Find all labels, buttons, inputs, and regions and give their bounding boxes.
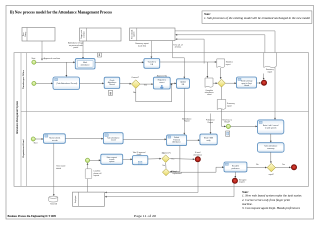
end event 2 [261, 80, 266, 85]
title [10, 10, 112, 15]
svg-text:records: records [52, 139, 58, 142]
start event 4 [85, 158, 89, 162]
badge 4 [97, 53, 101, 57]
flow: gateway approve down to gateway3 [165, 163, 167, 169]
svg-text:Business Process Re-Engineerin: Business Process Re-Engineering ICT 2009 [8, 214, 57, 218]
taskB: review attendance records [44, 134, 66, 144]
flow: taskB to taskC [65, 138, 103, 140]
start event 1 [32, 57, 36, 64]
flow: taskI down to gateway equal [270, 152, 272, 163]
task4: approved by (user task) [153, 75, 170, 89]
svg-text:8: 8 [110, 91, 112, 95]
svg-text:details: details [56, 167, 61, 170]
end event 4 [291, 165, 296, 170]
svg-text:Employee: Employee [75, 196, 77, 204]
task6: send summary report [237, 77, 257, 88]
taskD: submit preferred attendance [167, 135, 187, 146]
taskF: enter request to web system [101, 154, 123, 164]
flow: taskG to gateway approve [148, 158, 162, 160]
taskC: take attendance record [103, 133, 123, 144]
footer left: business process re-engineering [8, 214, 57, 218]
svg-text:Start: Start [34, 142, 38, 145]
message flow: doc1 area up to P3 [175, 38, 204, 63]
svg-text:Timekeeper Office: Timekeeper Office [23, 69, 25, 89]
flow: task6 to end2 [257, 82, 262, 84]
flow: gateway no loop back into task4 right [136, 83, 172, 101]
message flow: from bottom pool up through phone shape to start4 [87, 163, 89, 192]
footer center: page number [134, 214, 157, 218]
flow: gateway M to task6 [225, 82, 236, 84]
document doc2: summary report mid [217, 100, 235, 110]
svg-text:record: record [111, 139, 116, 142]
flow: gateway3 right to taskH [170, 166, 224, 172]
svg-text:Time DB: Time DB [50, 203, 58, 205]
taskI: take attendance summary [258, 143, 285, 153]
data store cylinder: time DB [49, 196, 58, 205]
flow: statistics doc down to gateway M [220, 68, 222, 79]
svg-text:Start: Start [32, 57, 36, 60]
flow: task2 to task3 [80, 83, 105, 85]
flow: start4 to taskF [90, 159, 101, 161]
message flow: into taskE top with label preference report [206, 114, 215, 135]
taskA: enter/edit/cancel to web system [258, 120, 284, 134]
mini pool P3: time attendance system [130, 28, 175, 41]
flow: fork down into task2 [66, 62, 68, 77]
pool: Attendance Management System [14, 53, 309, 187]
message flow: P3 right edge to task A (enter/edit/cancel) [175, 31, 276, 120]
svg-text:Page 11 of 20: Page 11 of 20 [134, 214, 157, 218]
svg-text:explanation?: explanation? [173, 172, 183, 175]
message flow: taskB down to cylinder DB with label [53, 143, 65, 196]
task2: enter attendance to web system [53, 77, 80, 90]
end event red2: e-mail attendance [193, 152, 202, 162]
message flow: P1 down to lane1 [41, 41, 43, 61]
shape: land line phone call request [85, 169, 102, 179]
document doc1: complete attendance sheet [205, 78, 214, 96]
lane label: Timekeeper Office [23, 69, 25, 89]
svg-text:Stamp: Stamp [24, 32, 27, 37]
svg-text:1. Sub processes of the existi: 1. Sub processes of the existing model w… [204, 16, 310, 20]
taskE: email sms [200, 134, 217, 145]
flow: start2 to task2 [36, 83, 53, 85]
message flow: summary report doc up to P3 [175, 34, 265, 53]
svg-text:3. Can request again Dept. Hea: 3. Can request again Dept. Heads prefere… [242, 206, 301, 210]
svg-text:preference: preference [231, 167, 239, 170]
flow: Transfer to DB right to statistics doc, with branch down to doc1 [160, 61, 217, 78]
badge 8 [108, 90, 112, 95]
message flow: red2 down and left into bottom pool [105, 162, 198, 193]
lane label: Department Head [22, 139, 25, 158]
svg-text:notify: notify [206, 139, 210, 142]
svg-text:4: 4 [99, 53, 101, 57]
svg-text:request: request [239, 181, 245, 184]
flow: task3 to gateway correct [120, 83, 132, 85]
svg-text:report: report [227, 104, 232, 107]
start event 3 [31, 137, 38, 145]
gateway: Correct? [131, 76, 147, 94]
gateway M small [218, 79, 226, 87]
svg-text:Email?: Email? [224, 122, 230, 124]
svg-text:sheet: sheet [207, 93, 212, 96]
flow: taskA down to taskI [270, 134, 272, 143]
mini pool P1: Time Stamp machine [22, 28, 55, 42]
flow: gateway4 to end4 with label [276, 164, 292, 168]
svg-text:Yes: Yes [282, 164, 285, 166]
svg-text:report: report [267, 71, 272, 74]
document: summary report tall at pool top [264, 53, 277, 74]
message flow: task5 down to taskD with label attendance report [182, 88, 191, 135]
message flow: red3 down and left into bottom pool [105, 184, 234, 198]
svg-text:Department Head: Department Head [22, 139, 25, 158]
svg-text:B) New process model for the A: B) New process model for the Attendance … [10, 10, 112, 15]
svg-text:Report: Report [208, 121, 214, 124]
end event red3: not agree [232, 178, 246, 183]
flow: start3 to taskB [35, 138, 43, 140]
svg-text:correct: correct [159, 81, 165, 84]
flow: taskH down to end red3 [234, 172, 236, 178]
sub-process task1: mark attendance by finger print [75, 59, 95, 69]
svg-text:Record: Record [109, 83, 115, 86]
svg-text:Yes: Yes [144, 84, 147, 86]
flow: gateway M down through doc2 to green event [222, 87, 227, 127]
svg-text:No: No [256, 164, 258, 166]
svg-text:portal: portal [73, 46, 78, 49]
svg-text:Report: Report [184, 120, 190, 123]
flow: task4 to task5 [170, 83, 176, 85]
svg-text:Attendance Management System: Attendance Management System [16, 101, 19, 134]
taskG: take ID approval [133, 151, 148, 165]
svg-text:equal?: equal? [269, 174, 274, 176]
flow: taskF to taskG [123, 158, 133, 160]
svg-text:No: No [163, 165, 165, 167]
bottom right note [241, 190, 303, 210]
flow: summary doc down to end2 [263, 74, 265, 80]
taskH: resubmit preference [224, 162, 247, 172]
svg-text:Heads: Heads [244, 85, 249, 87]
svg-text:attendance: attendance [193, 153, 202, 156]
start event 2 [32, 81, 36, 85]
svg-text:system: system [109, 160, 115, 163]
note box top right [202, 11, 312, 24]
svg-text:summary: summary [267, 148, 274, 150]
green event mid: new doc to email [223, 118, 232, 128]
flow: taskH to gateway equal with label [247, 164, 267, 168]
svg-text:all emp.: all emp. [175, 47, 182, 49]
gateway3: need explanation [162, 169, 182, 176]
task3: check attendance record [104, 77, 120, 88]
label: time attendance [173, 43, 183, 48]
flow: green event to taskA [231, 126, 258, 128]
label: summary report late list [135, 42, 149, 47]
svg-text:attendance: attendance [81, 64, 90, 67]
message flow: P2 down to sub-process task1 [82, 41, 84, 59]
lane divider [21, 110, 309, 112]
label: attendance image on personal web portal [68, 42, 83, 49]
document: statistics report [217, 59, 233, 68]
mini pool P2: finger print machine [80, 28, 122, 41]
message flow: P3 right connector elbow down to Update DB [173, 41, 186, 79]
bottom mini pool: employee [73, 192, 105, 206]
flow: start1 to task1 with label Approach machine [36, 57, 75, 63]
task: Transfer to DB [144, 59, 160, 69]
flow: gateway approve yes to end red email attendance [170, 158, 195, 160]
svg-text:request: request [94, 174, 100, 177]
flow: doc1 to gateway M [213, 82, 218, 84]
gateway: approve? [162, 151, 175, 167]
gateway4: equal? [267, 163, 275, 176]
svg-text:(Take Attendance Record): (Take Attendance Record) [56, 82, 77, 85]
flow: task1 to Transfer to DB [95, 61, 144, 63]
flow: gateway yes to task4 [140, 83, 153, 85]
flow: taskD to taskE [187, 139, 200, 141]
svg-text:(Late list): (Late list) [138, 44, 146, 47]
svg-text:report: report [226, 63, 231, 66]
flow: taskD bottom down then left into gateway3 [170, 146, 180, 173]
svg-text:machine: machine [83, 31, 85, 37]
flow: taskC to taskD [123, 138, 167, 140]
svg-text:system: system [133, 31, 136, 37]
badge below green event [226, 131, 230, 136]
svg-text:Preferred: Preferred [173, 139, 180, 141]
task5: update DB [177, 79, 190, 89]
svg-text:(Approve?): (Approve?) [162, 151, 171, 154]
svg-text:Approach machine: Approach machine [43, 57, 61, 60]
svg-text:Correct?: Correct? [131, 76, 140, 79]
message flow: P3 left connector down to Transfer to DB [151, 41, 153, 59]
svg-text:to web system: to web system [265, 127, 277, 130]
